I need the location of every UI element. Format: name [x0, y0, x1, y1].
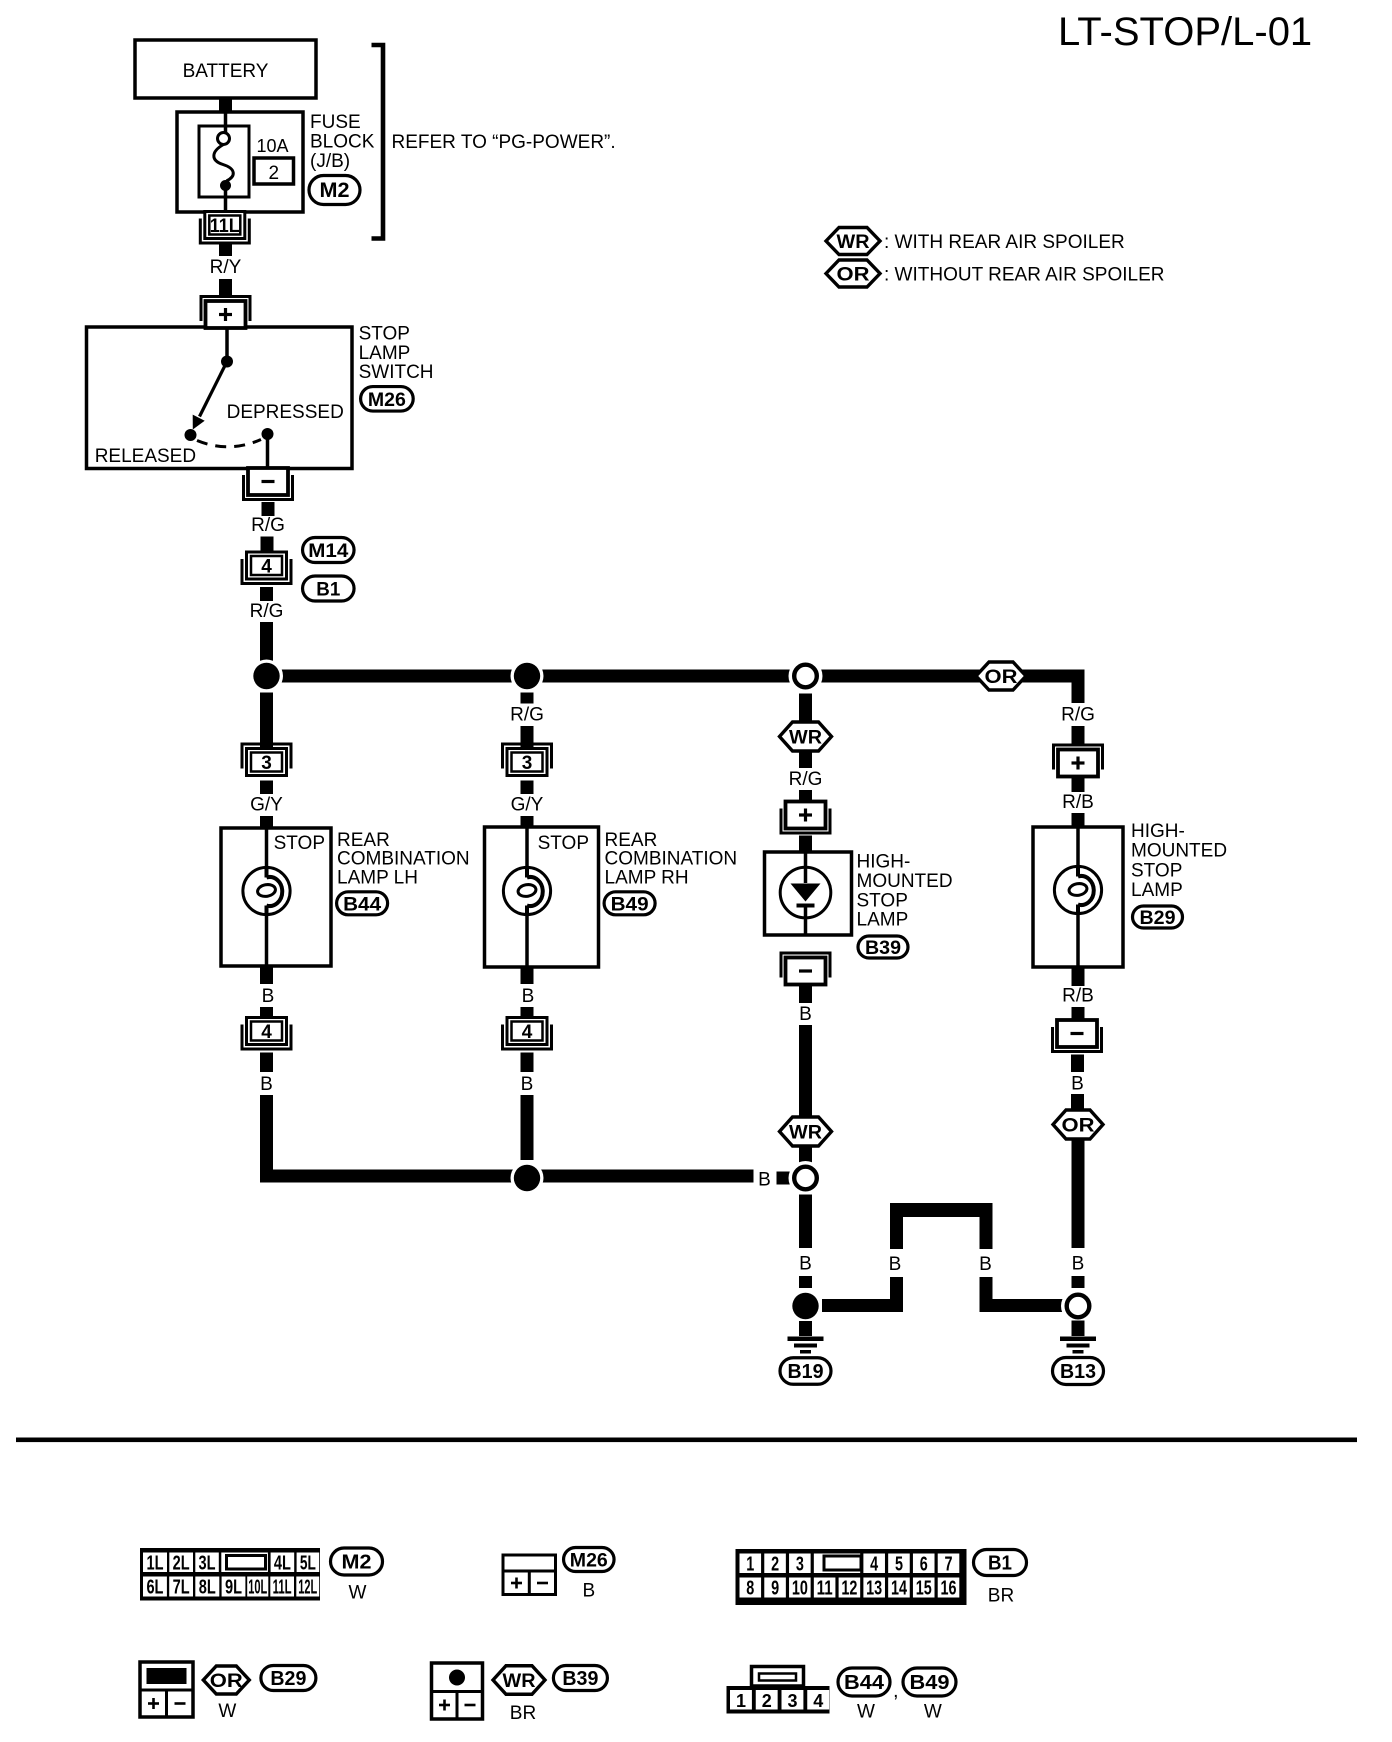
svg-text:4: 4 — [870, 1554, 879, 1576]
wire B to connector 4 — [260, 1007, 273, 1018]
svg-text:4: 4 — [522, 1022, 533, 1043]
LED symbol — [780, 867, 831, 918]
wire to G/Y — [521, 781, 534, 795]
open junction ground bus col3 — [789, 1161, 823, 1195]
svg-text:LAMP: LAMP — [1131, 880, 1183, 901]
svg-text:LT-STOP/L-01: LT-STOP/L-01 — [1058, 10, 1312, 54]
svg-text:B49: B49 — [910, 1672, 950, 1694]
svg-text:R/Y: R/Y — [210, 257, 242, 278]
svg-text:B: B — [799, 1254, 812, 1275]
legend WR symbol — [826, 228, 880, 255]
wire junction to R/G — [521, 693, 534, 704]
wire fuse to 11L — [224, 189, 228, 213]
wire R/G to + — [799, 790, 812, 801]
wire inside lamp — [265, 828, 269, 868]
svg-text:3: 3 — [787, 1691, 797, 1711]
splice option OR ground col4 — [1053, 1110, 1103, 1139]
svg-text:MOUNTED: MOUNTED — [857, 871, 953, 892]
svg-text:14: 14 — [891, 1578, 908, 1600]
connector ref B1 — [303, 576, 355, 601]
wire B down to ground bus elbow — [260, 1095, 273, 1176]
svg-text:LAMP: LAMP — [857, 910, 909, 931]
depressed contact — [262, 428, 274, 440]
svg-text:STOP: STOP — [538, 833, 589, 854]
wire depressed to minus — [266, 439, 270, 468]
rear combination lamp RH box — [485, 827, 599, 967]
wire to ground — [1072, 1321, 1085, 1337]
jog right leg upper — [980, 1217, 993, 1250]
svg-text:B49: B49 — [611, 894, 649, 915]
wire R/G to + — [1072, 726, 1085, 745]
connector 4 (M14/B1) — [242, 552, 291, 584]
switch arm arrow — [193, 362, 227, 430]
svg-text:B: B — [1071, 1074, 1084, 1095]
svg-text:M26: M26 — [570, 1551, 608, 1572]
bulb stop LH — [243, 867, 290, 914]
svg-text:DEPRESSED: DEPRESSED — [227, 402, 344, 423]
svg-text:OR: OR — [1062, 1116, 1095, 1137]
connector face B29 — [140, 1662, 193, 1717]
option OR B29 — [203, 1666, 249, 1694]
svg-text:STOP: STOP — [274, 833, 325, 854]
connector + high-mounted stop lamp B39 — [781, 802, 830, 834]
svg-text:B19: B19 — [788, 1361, 824, 1383]
svg-text:4: 4 — [261, 1022, 272, 1043]
wire to R/G — [262, 502, 275, 516]
connector 4 below RH lamp — [503, 1018, 552, 1050]
connector face B44/B49 — [727, 1667, 830, 1714]
connector ref B39 face — [553, 1666, 607, 1691]
svg-text:M26: M26 — [368, 390, 406, 411]
wire to ground — [799, 1321, 812, 1336]
svg-text:6: 6 — [920, 1554, 928, 1576]
jog left leg upper — [890, 1217, 903, 1250]
svg-text:B44: B44 — [844, 1672, 885, 1694]
ground bus left segment — [260, 1170, 754, 1183]
ground bus stub — [777, 1172, 792, 1185]
svg-text:B29: B29 — [1140, 908, 1176, 929]
wire inside lamp — [525, 827, 529, 868]
wire G/Y to lamp — [260, 816, 273, 828]
connector ref M14 — [303, 538, 355, 563]
svg-text:WR: WR — [789, 1123, 822, 1144]
wire to B — [799, 1195, 812, 1249]
released contact — [185, 429, 197, 441]
connector 4 below LH lamp — [242, 1018, 291, 1050]
wire to G/Y — [260, 781, 273, 795]
rear combination lamp LH box — [221, 828, 331, 966]
svg-text:B44: B44 — [343, 894, 381, 915]
svg-text:11L: 11L — [210, 216, 240, 237]
svg-text:STOP: STOP — [857, 890, 908, 911]
connector face M2 — [140, 1548, 320, 1601]
svg-text:,: , — [893, 1680, 899, 1702]
svg-text:: WITHOUT REAR AIR SPOILER: : WITHOUT REAR AIR SPOILER — [884, 265, 1164, 286]
junction ground col3 — [789, 1290, 822, 1323]
connector face M26 — [503, 1555, 556, 1595]
svg-text:FUSE: FUSE — [310, 112, 361, 133]
wire into fuse — [224, 112, 228, 133]
svg-text:3: 3 — [522, 753, 533, 774]
svg-text:B1: B1 — [988, 1553, 1012, 1575]
splice option WR ground col3 — [780, 1117, 832, 1146]
junction col2 — [511, 660, 544, 693]
svg-text:1: 1 — [736, 1691, 746, 1711]
ground ref B13 — [1053, 1358, 1104, 1385]
svg-text:B: B — [260, 1074, 273, 1095]
wire to B — [1071, 1055, 1084, 1073]
connector 11L — [200, 212, 249, 244]
svg-text:LAMP RH: LAMP RH — [605, 867, 689, 888]
open junction ground col4 — [1061, 1289, 1095, 1323]
svg-text:B: B — [799, 1004, 812, 1025]
connector 3 RH — [503, 744, 552, 776]
fuse number 2 box — [254, 158, 294, 184]
svg-text:BR: BR — [510, 1703, 536, 1724]
ground bus from B19 to jog — [822, 1299, 903, 1312]
svg-text:B: B — [979, 1254, 992, 1275]
wire G/Y to lamp — [521, 816, 534, 828]
wire to B — [521, 1053, 534, 1073]
fuse block (J/B) box — [177, 112, 303, 212]
option WR B39 — [493, 1666, 545, 1695]
svg-text:B: B — [758, 1170, 771, 1191]
wire OR to B — [1072, 1139, 1085, 1248]
svg-text:8: 8 — [746, 1578, 754, 1600]
svg-text:2L: 2L — [173, 1553, 190, 1575]
wire to lamp — [799, 836, 812, 853]
svg-text:W: W — [924, 1702, 942, 1723]
svg-text:3: 3 — [261, 753, 272, 774]
svg-text:B: B — [522, 986, 535, 1007]
svg-text:4: 4 — [813, 1691, 823, 1711]
bulb stop RH — [503, 867, 550, 914]
main feed bus — [267, 670, 1085, 683]
svg-text:: WITH REAR AIR SPOILER: : WITH REAR AIR SPOILER — [884, 232, 1125, 253]
wire B to WR — [799, 1025, 812, 1117]
connector ref B44 — [337, 892, 388, 916]
connector ref B49 — [604, 892, 655, 916]
wire to R/B — [1072, 777, 1085, 792]
wire WR to junction — [799, 1147, 812, 1164]
svg-text:R/B: R/B — [1062, 792, 1094, 813]
wire lamp to B — [260, 966, 273, 984]
svg-text:RELEASED: RELEASED — [95, 446, 196, 467]
svg-text:HIGH-: HIGH- — [1131, 821, 1185, 842]
connector ref M26 face — [564, 1548, 615, 1572]
svg-text:WR: WR — [503, 1671, 536, 1692]
bracket — [372, 45, 384, 239]
svg-text:SWITCH: SWITCH — [359, 362, 434, 383]
connector face B1 — [736, 1549, 967, 1605]
svg-text:B29: B29 — [270, 1668, 306, 1690]
high-mounted stop lamp B29 box — [1033, 827, 1123, 967]
wire R/G to connector 4 — [261, 537, 274, 553]
connector ref B49 face — [903, 1668, 956, 1696]
svg-text:(J/B): (J/B) — [310, 151, 350, 172]
svg-text:12: 12 — [841, 1578, 857, 1600]
connector ref B1 face — [974, 1550, 1027, 1576]
wire to R/G — [260, 587, 273, 601]
high-mounted stop lamp B39 box — [765, 852, 852, 935]
connector ref B29 face — [261, 1666, 316, 1691]
connector + stop lamp switch — [201, 297, 250, 329]
svg-text:M2: M2 — [342, 1552, 372, 1574]
svg-text:OR: OR — [985, 667, 1018, 688]
svg-text:12L: 12L — [298, 1577, 317, 1599]
svg-text:B: B — [262, 986, 275, 1007]
svg-text:3: 3 — [796, 1554, 804, 1576]
svg-text:OR: OR — [837, 265, 870, 286]
svg-text:B: B — [1072, 1254, 1085, 1275]
jog right leg lower — [980, 1277, 993, 1312]
wire inside switch — [225, 328, 229, 357]
svg-text:B39: B39 — [865, 938, 901, 959]
svg-text:WR: WR — [789, 728, 822, 749]
wire R/Y to stop lamp switch — [219, 279, 232, 296]
svg-text:7L: 7L — [173, 1577, 190, 1599]
wire down to col4 — [1072, 676, 1085, 703]
wire B to connector 4 — [521, 1007, 534, 1018]
wire R/G to connector 3 — [521, 726, 534, 748]
stop lamp switch M26 box — [87, 327, 353, 469]
wire inside lamp — [1076, 827, 1080, 867]
svg-text:STOP: STOP — [359, 324, 410, 345]
svg-text:10A: 10A — [257, 136, 289, 156]
wire lamp to R/B — [1072, 967, 1085, 986]
svg-text:11: 11 — [817, 1578, 833, 1600]
svg-text:4: 4 — [261, 556, 272, 577]
svg-text:B13: B13 — [1060, 1361, 1096, 1383]
legend OR symbol — [826, 260, 880, 287]
bulb high-mounted stop lamp B29 — [1054, 866, 1101, 913]
fuse element — [214, 133, 233, 192]
svg-text:LAMP: LAMP — [359, 343, 411, 364]
junction ground bus col2 — [511, 1162, 544, 1195]
connector ref B39 — [858, 936, 908, 959]
open junction col3 — [789, 659, 823, 693]
svg-text:13: 13 — [866, 1578, 882, 1600]
splice option WR col3 — [780, 722, 832, 751]
dashed travel arc — [197, 440, 261, 447]
jog left leg lower — [890, 1277, 903, 1312]
switch common contact — [221, 356, 233, 368]
svg-text:9L: 9L — [225, 1577, 242, 1599]
svg-text:B: B — [889, 1254, 902, 1275]
svg-text:WR: WR — [837, 232, 870, 253]
svg-text:1L: 1L — [147, 1553, 164, 1575]
svg-text:HIGH-: HIGH- — [857, 852, 911, 873]
svg-text:STOP: STOP — [1131, 860, 1182, 881]
jog top bar — [890, 1203, 993, 1217]
wire B to ground bus — [521, 1095, 534, 1160]
svg-text:7: 7 — [945, 1554, 953, 1576]
connector + high-mounted stop lamp B29 — [1054, 745, 1103, 777]
connector - high-mounted stop lamp B29 — [1053, 1020, 1102, 1052]
battery — [135, 40, 316, 98]
svg-text:R/B: R/B — [1062, 986, 1094, 1007]
wire R/G to junction — [260, 622, 273, 661]
wire lamp to B — [521, 967, 534, 984]
svg-text:R/G: R/G — [250, 601, 284, 622]
svg-text:OR: OR — [210, 1671, 243, 1692]
svg-text:16: 16 — [941, 1578, 957, 1600]
svg-text:W: W — [857, 1702, 875, 1723]
svg-text:B: B — [521, 1074, 534, 1095]
connector ref M2 — [309, 176, 360, 205]
svg-text:1: 1 — [746, 1554, 754, 1576]
wire battery to fuse block — [219, 97, 232, 114]
wire R/B to lamp — [1072, 813, 1085, 827]
svg-text:BATTERY: BATTERY — [183, 61, 269, 82]
svg-text:2: 2 — [269, 163, 280, 184]
ground B13 — [1060, 1337, 1096, 1354]
connector ref B29 — [1133, 906, 1183, 929]
connector - stop lamp switch — [244, 468, 293, 500]
svg-text:3L: 3L — [199, 1553, 216, 1575]
connector ref M26 — [361, 387, 414, 412]
svg-text:BR: BR — [988, 1586, 1014, 1607]
connector ref B44 face — [838, 1668, 890, 1696]
svg-text:W: W — [349, 1583, 367, 1604]
ground bus jog to B13 — [980, 1299, 1064, 1312]
splice option OR on bus — [976, 662, 1026, 690]
svg-text:15: 15 — [916, 1578, 932, 1600]
svg-text:5: 5 — [895, 1554, 903, 1576]
svg-text:B: B — [582, 1581, 595, 1602]
separator rule — [16, 1438, 1357, 1443]
wire inside lamp — [804, 852, 808, 935]
junction col1 — [250, 660, 283, 693]
fuse 10A box — [199, 126, 249, 197]
svg-text:R/G: R/G — [510, 705, 544, 726]
svg-text:B39: B39 — [562, 1668, 598, 1690]
wire B to ground junction — [1072, 1276, 1085, 1288]
svg-text:10L: 10L — [248, 1577, 267, 1599]
connector - high-mounted stop lamp B39 — [781, 953, 830, 985]
svg-text:W: W — [218, 1701, 236, 1722]
svg-text:LAMP LH: LAMP LH — [337, 867, 418, 888]
svg-text:10: 10 — [792, 1578, 808, 1600]
svg-text:MOUNTED: MOUNTED — [1131, 841, 1227, 862]
svg-text:9: 9 — [771, 1578, 779, 1600]
svg-text:11L: 11L — [273, 1577, 292, 1599]
connector ref M2 face — [331, 1548, 383, 1575]
svg-text:2: 2 — [762, 1691, 772, 1711]
svg-text:4L: 4L — [274, 1553, 291, 1575]
svg-text:6L: 6L — [146, 1577, 163, 1599]
wire to R/G — [799, 751, 812, 768]
svg-text:5L: 5L — [300, 1553, 316, 1575]
wire junction to connector 3 — [260, 693, 273, 749]
wire to B — [260, 1053, 273, 1073]
ground ref B19 — [780, 1358, 831, 1385]
svg-text:BLOCK: BLOCK — [310, 132, 375, 153]
connector 3 LH — [242, 744, 291, 776]
connector face B39 — [432, 1663, 483, 1719]
svg-text:G/Y: G/Y — [511, 795, 544, 816]
wire B to OR — [1071, 1094, 1084, 1111]
svg-text:R/G: R/G — [1061, 705, 1095, 726]
svg-text:M14: M14 — [308, 541, 348, 562]
svg-text:8L: 8L — [199, 1577, 216, 1599]
wire to B — [799, 986, 812, 1003]
svg-text:REFER TO “PG-POWER”.: REFER TO “PG-POWER”. — [392, 132, 616, 153]
wire R/B to - — [1072, 1007, 1085, 1020]
svg-text:B1: B1 — [316, 580, 340, 601]
svg-text:R/G: R/G — [789, 769, 823, 790]
svg-text:R/G: R/G — [251, 515, 285, 536]
ground B19 — [788, 1337, 824, 1354]
svg-text:M2: M2 — [320, 179, 350, 202]
svg-text:G/Y: G/Y — [250, 795, 283, 816]
wire 11L to R/Y — [219, 245, 232, 257]
svg-text:2: 2 — [771, 1554, 779, 1576]
wire open junction to WR — [799, 694, 812, 724]
wire B to ground junction — [799, 1276, 812, 1288]
